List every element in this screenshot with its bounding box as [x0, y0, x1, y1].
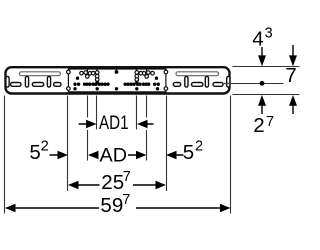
svg-text:4: 4	[252, 27, 263, 50]
svg-text:2: 2	[195, 139, 203, 155]
svg-text:5: 5	[29, 141, 40, 164]
svg-text:7: 7	[285, 64, 296, 87]
svg-text:2: 2	[253, 114, 264, 137]
svg-text:AD1: AD1	[99, 112, 129, 134]
svg-text:59: 59	[100, 194, 123, 217]
svg-text:2: 2	[41, 139, 49, 155]
svg-text:7: 7	[266, 114, 274, 130]
svg-text:7: 7	[122, 192, 130, 208]
svg-text:5: 5	[183, 141, 194, 164]
svg-text:AD: AD	[100, 145, 128, 167]
svg-text:3: 3	[265, 25, 273, 41]
svg-text:7: 7	[123, 169, 131, 185]
svg-text:25: 25	[101, 171, 124, 194]
